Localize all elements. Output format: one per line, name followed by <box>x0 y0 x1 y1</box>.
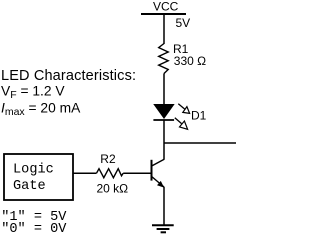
wire R2 to base <box>123 172 152 174</box>
power rail VCC <box>141 0 186 14</box>
svg-text:"0" = 0V: "0" = 0V <box>1 222 67 237</box>
svg-text:Imax = 20 mA: Imax = 20 mA <box>1 100 81 118</box>
resistor R2 <box>97 169 124 178</box>
wire collector node to right edge <box>164 142 236 144</box>
svg-text:VCC: VCC <box>153 0 179 14</box>
svg-text:D1: D1 <box>191 109 207 123</box>
wire VCC to R1 <box>163 14 165 44</box>
wire R1 to LED <box>163 74 165 106</box>
wire emitter to ground <box>163 187 165 225</box>
wire LED to collector node <box>163 120 165 160</box>
resistor R1 <box>159 44 169 74</box>
logic gate box <box>4 154 73 200</box>
wire box to R2 <box>73 172 97 174</box>
svg-text:LED Characteristics:: LED Characteristics: <box>1 68 136 84</box>
transistor Q1 <box>152 159 165 187</box>
label R1 <box>173 42 189 56</box>
svg-text:20 kΩ: 20 kΩ <box>97 182 129 196</box>
annotation LED characteristics <box>1 68 136 118</box>
label R2 <box>100 152 116 166</box>
annotation logic levels <box>1 210 67 237</box>
label 330 ohm <box>174 54 206 68</box>
LED emission arrow 2 <box>175 118 188 130</box>
svg-text:Gate: Gate <box>13 179 46 194</box>
label 5V <box>176 16 191 30</box>
svg-text:330 Ω: 330 Ω <box>174 54 206 68</box>
label D1 <box>191 109 207 123</box>
svg-text:R2: R2 <box>100 152 116 166</box>
svg-text:5V: 5V <box>176 16 191 30</box>
label 20 kohm <box>97 182 129 196</box>
LED D1 anode triangle <box>154 105 174 119</box>
svg-text:VF = 1.2 V: VF = 1.2 V <box>1 83 65 101</box>
LED emission arrow 1 <box>178 104 189 114</box>
svg-text:Logic: Logic <box>13 163 54 178</box>
ground <box>152 225 174 232</box>
LED D1 cathode bar <box>153 119 174 121</box>
